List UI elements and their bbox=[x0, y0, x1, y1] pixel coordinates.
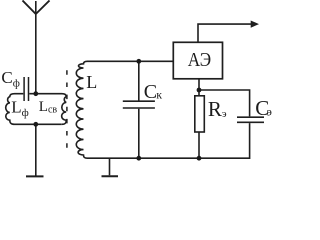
svg-text:Lф: Lф bbox=[11, 98, 29, 119]
svg-text:Rэ: Rэ bbox=[208, 97, 227, 121]
svg-text:к: к bbox=[156, 88, 162, 102]
svg-text:э: э bbox=[267, 105, 272, 119]
svg-text:АЭ: АЭ bbox=[188, 49, 211, 71]
svg-text:Lсв: Lсв bbox=[39, 99, 58, 116]
svg-text:Cф: Cф bbox=[1, 68, 19, 89]
svg-text:C: C bbox=[144, 81, 157, 103]
svg-text:L: L bbox=[86, 72, 97, 92]
